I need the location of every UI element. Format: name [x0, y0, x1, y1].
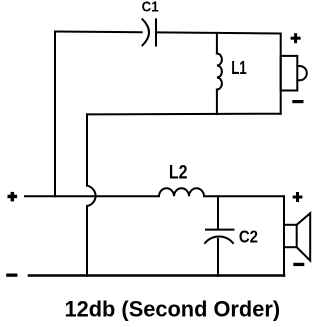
- svg-text:12db (Second Order): 12db (Second Order): [65, 297, 281, 322]
- svg-text:L1: L1: [231, 58, 247, 78]
- svg-text:C2: C2: [239, 227, 258, 247]
- svg-text:C1: C1: [142, 0, 159, 16]
- svg-text:L2: L2: [169, 163, 188, 184]
